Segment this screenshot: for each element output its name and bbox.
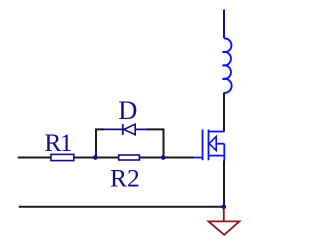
svg-text:R2: R2 <box>110 164 140 193</box>
mosfet Q1 gate bar <box>202 130 204 161</box>
wire: source to bottom rail <box>223 161 225 207</box>
mosfet Q1 gate lead <box>194 157 203 159</box>
resistor R2 body <box>119 155 140 160</box>
mosfet Q1 body arrow <box>209 137 216 151</box>
mosfet Q1 source pin <box>223 156 225 161</box>
diode D triangle <box>124 124 135 135</box>
ground triangle <box>209 221 240 234</box>
junction dot right <box>161 155 166 160</box>
mosfet Q1 drain stub <box>209 131 225 133</box>
svg-text:R1: R1 <box>44 128 72 157</box>
svg-text:D: D <box>118 95 137 125</box>
diode D right pin <box>135 128 147 130</box>
wire: bottom rail <box>19 206 224 208</box>
mosfet Q1 channel bar <box>208 130 210 161</box>
mosfet Q1 source stub <box>209 155 225 157</box>
junction dot bottom right <box>221 204 226 209</box>
wire: left branch vertical <box>96 129 104 157</box>
diode D left pin <box>104 128 123 130</box>
mosfet Q1 source link <box>223 144 225 156</box>
wire: inductor to MOSFET drain <box>223 93 225 132</box>
resistor R1 body <box>51 154 74 160</box>
inductor L1 top pin <box>223 10 225 39</box>
mosfet Q1 middle stub <box>216 143 224 145</box>
inductor L1 coil <box>223 38 232 93</box>
ground stub <box>223 208 225 221</box>
wire: right branch vertical <box>147 129 164 157</box>
wire: main horizontal (left) <box>18 157 194 159</box>
diode D cathode bar <box>122 124 124 135</box>
junction dot left <box>93 155 98 160</box>
